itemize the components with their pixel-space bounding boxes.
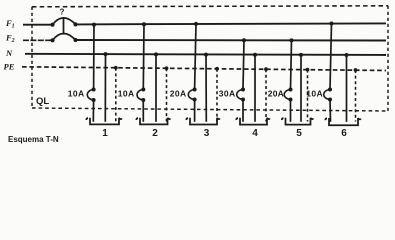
circuit 4 outlet box bracket xyxy=(236,118,269,125)
enclosure QL dashed border top xyxy=(32,6,388,7)
wire F1 bus left segment xyxy=(23,24,53,26)
circuit 3 phase wire below breaker xyxy=(194,100,196,122)
circuit 5 junction dot on F2 xyxy=(290,38,294,42)
svg-text:6: 6 xyxy=(341,128,347,139)
circuit 1 PE drop wire (dashed) xyxy=(115,68,117,122)
circuit 3 PE drop wire (dashed) xyxy=(216,69,218,122)
circuit 6 breaker CB6 dots xyxy=(328,88,332,102)
circuit 6 neutral drop wire xyxy=(346,55,348,122)
svg-text:2: 2 xyxy=(152,128,158,139)
circuit 1 breaker CB1 dots xyxy=(92,88,96,103)
circuit 5 junction dot on PE xyxy=(306,68,310,72)
svg-text:4: 4 xyxy=(252,128,258,139)
circuit 5 breaker CB5 arc xyxy=(284,90,290,100)
circuit 4 breaker CB4 arc xyxy=(237,90,243,100)
circuit 4 junction dot on F2 xyxy=(242,38,246,42)
circuit 3 phase drop wire from F1 xyxy=(195,24,196,89)
circuit 1 junction dot on N xyxy=(104,52,108,56)
svg-text:3: 3 xyxy=(204,128,210,139)
wire F1 bus right segment xyxy=(76,23,387,24)
circuit 2 junction dot on PE xyxy=(165,66,169,70)
svg-text:20A: 20A xyxy=(170,89,187,99)
circuit 2 PE drop wire (dashed) xyxy=(166,68,168,121)
circuit 2 phase wire below breaker xyxy=(142,100,144,122)
circuit 2 phase drop wire from F1 xyxy=(142,24,145,89)
circuit 6 phase drop wire from F1 xyxy=(330,24,332,90)
wire PE bus (dashed) xyxy=(22,67,386,71)
switch S pole on F2: contact arc xyxy=(53,33,76,40)
circuit 2 breaker CB2 dots xyxy=(141,88,145,103)
circuit 2 junction dot on N xyxy=(154,52,158,56)
circuit 6 junction dot on N xyxy=(345,53,349,57)
circuit 5 outlet box bracket xyxy=(282,118,313,125)
circuit 3 neutral drop wire xyxy=(205,55,207,122)
circuit 4 phase drop wire from F2 xyxy=(243,40,244,89)
circuit 2 outlet box bracket xyxy=(136,118,170,125)
enclosure QL dashed border bottom xyxy=(32,108,388,111)
circuit 4 junction dot on PE xyxy=(264,67,268,71)
circuit 2 breaker CB2 arc xyxy=(137,90,143,101)
svg-text:QL: QL xyxy=(36,96,49,107)
svg-text:N: N xyxy=(5,48,13,58)
svg-text:10A: 10A xyxy=(118,89,135,99)
wire N bus xyxy=(25,54,386,55)
circuit 5 junction dot on N xyxy=(299,53,303,57)
circuit 5 breaker CB5 dots xyxy=(289,88,293,102)
circuit 6 phase wire below breaker xyxy=(329,100,332,122)
svg-text:10A: 10A xyxy=(68,89,85,99)
circuit 2 junction dot on F1 xyxy=(142,22,146,26)
circuit 3 breaker CB3 dots xyxy=(193,88,197,102)
circuit 1 phase drop wire from F1 xyxy=(93,25,95,89)
enclosure QL dashed border right xyxy=(387,6,389,111)
circuit 3 junction dot on PE xyxy=(215,67,219,71)
circuit 4 phase wire below breaker xyxy=(242,100,244,122)
circuit 4 junction dot on N xyxy=(253,53,257,57)
circuit 1 junction dot on F1 xyxy=(92,23,96,27)
svg-text:F1: F1 xyxy=(5,18,15,30)
wire F2 bus left segment xyxy=(23,39,53,41)
circuit 2 neutral drop wire xyxy=(155,54,157,121)
svg-text:5: 5 xyxy=(296,128,302,139)
circuit 1 neutral drop wire xyxy=(104,54,106,122)
circuit 6 junction dot on F1 xyxy=(330,22,334,26)
circuit 5 phase wire below breaker xyxy=(290,100,292,122)
svg-text:F2: F2 xyxy=(5,33,15,45)
switch S pole on F1: contact arc xyxy=(53,18,76,25)
circuit 1 phase wire below breaker xyxy=(92,100,94,122)
circuit 5 PE drop wire (dashed) xyxy=(307,70,309,122)
enclosure QL dashed border left xyxy=(31,7,33,108)
circuit 3 breaker CB3 arc xyxy=(188,90,194,100)
svg-text:Esquema T-N: Esquema T-N xyxy=(8,135,59,144)
circuit 3 junction dot on F1 xyxy=(194,22,198,26)
svg-text:1: 1 xyxy=(102,128,108,139)
svg-text:20A: 20A xyxy=(268,89,284,99)
switch S pole on F2: terminal dots xyxy=(50,38,77,43)
svg-text:PE: PE xyxy=(4,62,15,72)
svg-text:10A: 10A xyxy=(306,89,323,99)
circuit 5 neutral drop wire xyxy=(300,55,302,122)
circuit 1 junction dot on PE xyxy=(114,66,118,70)
circuit 4 PE drop wire (dashed) xyxy=(265,69,267,121)
wire F2 bus right segment xyxy=(76,39,387,42)
svg-text:?: ? xyxy=(60,8,65,17)
circuit 3 outlet box bracket xyxy=(186,118,219,125)
circuit 6 junction dot on PE xyxy=(354,68,358,72)
switch S mechanical link xyxy=(63,17,65,34)
svg-text:30A: 30A xyxy=(219,89,236,99)
circuit 1 outlet box bracket xyxy=(86,118,121,125)
circuit 6 outlet box bracket xyxy=(325,118,360,125)
circuit 4 neutral drop wire xyxy=(254,55,256,122)
circuit 1 breaker CB1 arc xyxy=(87,90,93,101)
circuit 5 phase drop wire from F2 xyxy=(291,40,292,89)
circuit 6 breaker CB6 arc xyxy=(324,90,330,100)
circuit 3 junction dot on N xyxy=(204,53,208,57)
circuit 4 breaker CB4 dots xyxy=(241,88,245,102)
switch S pole on F1: terminal dots xyxy=(50,22,77,27)
circuit 6 PE drop wire (dashed) xyxy=(355,70,357,122)
